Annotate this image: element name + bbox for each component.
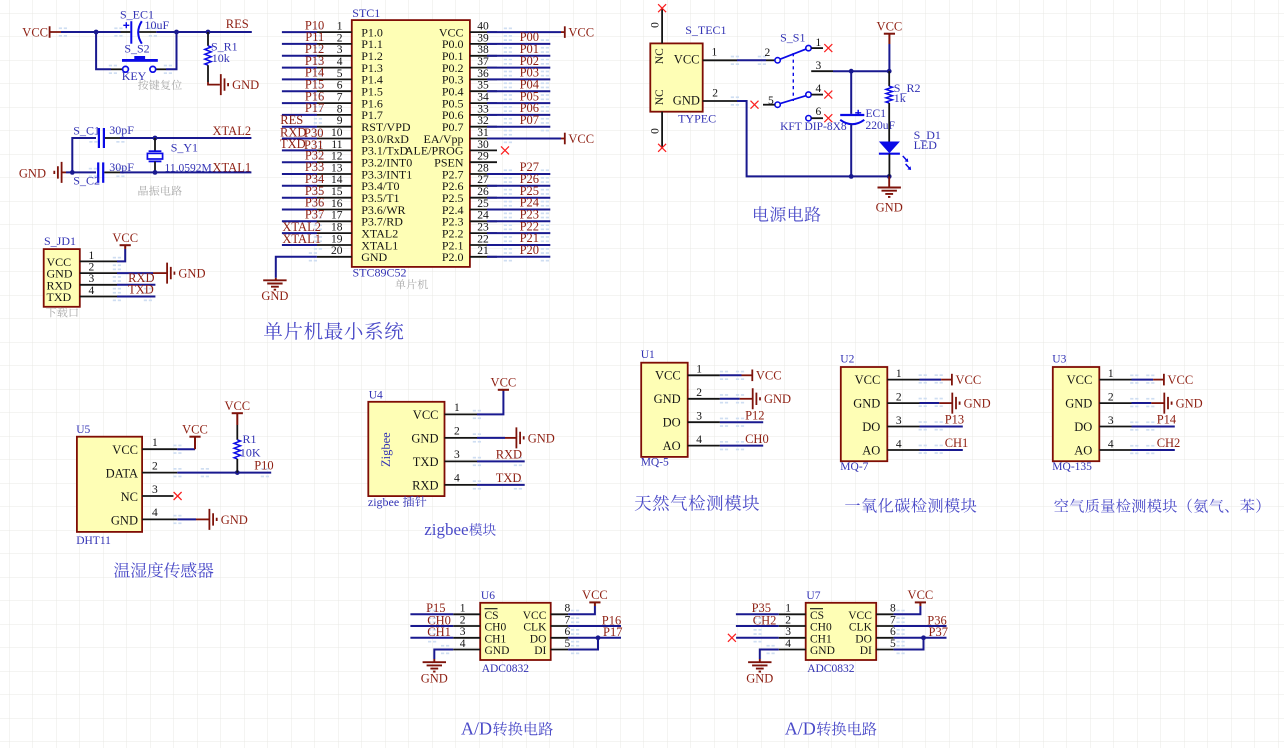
- svg-text:36: 36: [477, 68, 489, 80]
- svg-text:DI: DI: [534, 645, 546, 657]
- pin 3 U4: [445, 460, 478, 462]
- pin 1 S_JD1: [80, 260, 117, 262]
- caption 电源电路: [754, 206, 821, 222]
- wire P25 net: [487, 197, 550, 199]
- wire STC1 pin 8: [282, 114, 317, 116]
- ground GND (U4): [505, 437, 516, 439]
- wire STC1 pin 17: [282, 220, 317, 222]
- wire P27 net: [487, 173, 550, 175]
- svg-text:30: 30: [477, 139, 489, 151]
- svg-text:GND: GND: [361, 250, 387, 264]
- svg-text:2: 2: [152, 460, 158, 472]
- wire STC1 GND pin 20: [276, 257, 317, 278]
- svg-text:TXD: TXD: [280, 137, 306, 151]
- svg-text:8: 8: [337, 103, 343, 115]
- svg-text:TXD: TXD: [413, 455, 439, 469]
- svg-text:1: 1: [337, 21, 343, 33]
- svg-text:S_C2: S_C2: [73, 173, 100, 187]
- pin 3 U6: [453, 637, 480, 639]
- svg-text:GND: GND: [964, 397, 991, 411]
- wire STC1 pin 3: [282, 55, 317, 57]
- push button S_S2 KEY: [111, 68, 123, 70]
- svg-text:P37: P37: [929, 625, 948, 639]
- pin 7 STC1: [317, 102, 352, 104]
- node crystal top: [153, 136, 158, 141]
- wire U1 pin4 CH0: [720, 445, 763, 447]
- svg-text:17: 17: [331, 210, 343, 222]
- svg-text:GND: GND: [1176, 397, 1203, 411]
- ground GND (U6): [433, 659, 435, 662]
- pin 1 STC1: [317, 31, 352, 33]
- svg-text:13: 13: [331, 162, 343, 174]
- svg-text:DO: DO: [530, 633, 547, 645]
- ground GND (U7): [759, 659, 761, 662]
- pin 12 STC1: [317, 161, 352, 163]
- svg-text:GND: GND: [111, 513, 138, 527]
- pin 1 U6: [453, 613, 480, 615]
- svg-text:4: 4: [1108, 438, 1114, 450]
- svg-text:A/D: A/D: [785, 719, 816, 739]
- svg-text:2: 2: [337, 32, 343, 44]
- svg-text:25: 25: [477, 198, 489, 210]
- svg-text:3: 3: [696, 411, 702, 423]
- svg-text:27: 27: [477, 174, 489, 186]
- svg-text:20: 20: [331, 245, 343, 257]
- svg-text:CS: CS: [485, 610, 499, 622]
- power flag VCC (JD1): [124, 245, 126, 249]
- svg-text:zigbee: zigbee: [368, 495, 399, 509]
- crystal S_Y1 11.0592M: [154, 138, 156, 151]
- svg-text:9: 9: [337, 115, 343, 127]
- wire U6 pin5 to pin6: [568, 638, 598, 650]
- svg-text:CLK: CLK: [849, 622, 873, 634]
- wire XTAL2 net: [120, 137, 251, 139]
- svg-text:0: 0: [650, 22, 662, 28]
- svg-text:GND: GND: [232, 78, 259, 92]
- svg-text:VCC: VCC: [956, 373, 982, 387]
- svg-text:TXD: TXD: [128, 283, 154, 297]
- svg-text:DO: DO: [663, 416, 681, 430]
- svg-text:P2.0: P2.0: [442, 250, 464, 264]
- wire U5 pin1 to VCC: [177, 448, 195, 450]
- wire JD1 pin2 to GND: [117, 272, 153, 274]
- svg-text:P12: P12: [745, 408, 764, 422]
- svg-text:4: 4: [89, 285, 95, 297]
- wire U3 pin2 to GND: [1132, 402, 1152, 404]
- pin 13 STC1: [317, 173, 352, 175]
- wire STC1 pin 16: [282, 209, 317, 211]
- svg-text:Zigbee: Zigbee: [379, 432, 393, 467]
- svg-text:U2: U2: [840, 353, 854, 365]
- pin 4 U4: [445, 484, 478, 486]
- svg-text:26: 26: [477, 186, 489, 198]
- svg-text:6: 6: [337, 80, 343, 92]
- svg-text:CH0: CH0: [485, 622, 507, 634]
- svg-text:2: 2: [785, 614, 791, 626]
- svg-text:TXD: TXD: [47, 290, 72, 304]
- svg-text:CH2: CH2: [1157, 436, 1181, 450]
- ground GND (STC1): [275, 278, 277, 280]
- svg-text:0: 0: [650, 128, 662, 134]
- pin 4 S_JD1: [80, 296, 117, 298]
- pin 29 STC1: [470, 161, 497, 163]
- svg-text:VCC: VCC: [224, 399, 250, 413]
- pin S_S1-4 stub: [811, 94, 823, 96]
- svg-text:220uF: 220uF: [866, 120, 895, 132]
- resistor S_R1 10k: [207, 32, 209, 46]
- node DATA-R1: [235, 470, 240, 475]
- svg-text:DHT11: DHT11: [76, 535, 111, 547]
- svg-text:S_JD1: S_JD1: [44, 234, 76, 248]
- ground GND (JD1): [153, 272, 167, 274]
- wire TYPEC pin1 to switch: [737, 59, 766, 61]
- svg-text:GND: GND: [1065, 396, 1092, 410]
- wire S_EC1 to RES net: [156, 31, 252, 33]
- annotation 按键复位: [138, 80, 182, 90]
- wire U4 pin1 to VCC: [477, 391, 503, 414]
- svg-text:VCC: VCC: [22, 26, 48, 40]
- pin 6 STC1: [317, 90, 352, 92]
- wire U7 pin4 to GND: [760, 650, 779, 659]
- svg-text:VCC: VCC: [112, 443, 138, 457]
- svg-text:GND: GND: [853, 396, 880, 410]
- svg-text:4: 4: [696, 434, 702, 446]
- wire STC1 pin 14: [282, 185, 317, 187]
- svg-text:GND: GND: [221, 513, 248, 527]
- svg-text:2: 2: [696, 387, 702, 399]
- svg-text:VCC: VCC: [756, 369, 782, 383]
- svg-text:CH1: CH1: [945, 436, 969, 450]
- svg-text:4: 4: [785, 638, 791, 650]
- svg-text:31: 31: [477, 127, 489, 139]
- svg-text:VCC: VCC: [877, 20, 903, 34]
- svg-text:P13: P13: [945, 413, 964, 427]
- wire DATA P10 net: [177, 472, 271, 474]
- resistor S_R2 1k: [888, 71, 890, 86]
- svg-text:GND: GND: [673, 93, 700, 107]
- svg-text:3: 3: [1108, 415, 1114, 427]
- wire P04 net: [487, 90, 550, 92]
- svg-text:1: 1: [896, 368, 902, 380]
- wire U6 pin2 CH0: [410, 625, 453, 627]
- svg-text:RXD: RXD: [412, 479, 438, 493]
- pin 3 U5: [142, 495, 173, 497]
- svg-text:1: 1: [816, 37, 822, 49]
- pin 32 STC1: [470, 126, 497, 128]
- svg-text:3: 3: [785, 626, 791, 638]
- wire C1 left branch: [72, 138, 96, 172]
- wire U6 pin6 P17: [568, 637, 621, 639]
- pin 5 U7: [876, 649, 893, 651]
- pin 7 U7: [876, 625, 893, 627]
- svg-text:GND: GND: [810, 645, 835, 657]
- pin 3 STC1: [317, 55, 352, 57]
- pin 35 STC1: [470, 90, 497, 92]
- wire P05 net: [487, 102, 550, 104]
- svg-text:LED: LED: [914, 138, 938, 152]
- svg-text:STC89C52: STC89C52: [353, 266, 407, 280]
- svg-text:GND: GND: [746, 671, 773, 685]
- pin 21 STC1: [470, 256, 497, 258]
- annotation 单片机: [395, 279, 428, 289]
- svg-text:7: 7: [337, 92, 343, 104]
- wire STC1 pin 1: [282, 31, 317, 33]
- svg-text:2: 2: [896, 392, 902, 404]
- pin 2 STC1: [317, 43, 352, 45]
- pin 8 STC1: [317, 114, 352, 116]
- svg-text:VCC: VCC: [491, 376, 517, 390]
- svg-text:1: 1: [712, 47, 718, 59]
- svg-text:RES: RES: [226, 17, 249, 31]
- wire STC1 pin 10: [282, 138, 317, 140]
- svg-text:16: 16: [331, 198, 343, 210]
- svg-text:18: 18: [331, 222, 343, 234]
- pin 4 U5: [142, 518, 177, 520]
- svg-text:ADC0832: ADC0832: [482, 663, 530, 675]
- no-connect S_S1 pin1: [824, 44, 832, 52]
- svg-text:U6: U6: [481, 590, 495, 602]
- power flag VCC (U4): [502, 390, 504, 391]
- svg-text:10: 10: [331, 127, 343, 139]
- pin 34 STC1: [470, 102, 497, 104]
- capacitor S_EC1 10uF: [121, 31, 131, 33]
- svg-text:32: 32: [477, 115, 489, 127]
- wire U3 pin3 P14: [1132, 426, 1175, 428]
- pin 36 STC1: [470, 78, 497, 80]
- wire VCC to S_EC1: [61, 31, 121, 33]
- power flag VCC (pin31): [561, 138, 565, 140]
- capacitor S_C2 30pF: [97, 162, 99, 182]
- svg-text:1: 1: [152, 437, 158, 449]
- svg-text:EC1: EC1: [866, 108, 887, 120]
- svg-text:P10: P10: [254, 458, 273, 472]
- pin 1 U1: [688, 374, 720, 376]
- wire U7 pin8 to VCC: [894, 606, 921, 614]
- no-connect S_S1 pin5: [751, 101, 759, 109]
- wire STC1 pin31 to VCC: [487, 138, 561, 140]
- wire STC1 pin 11: [282, 149, 317, 151]
- svg-text:6: 6: [565, 626, 571, 638]
- pin 22 STC1: [470, 244, 497, 246]
- pin 2 U1: [688, 398, 720, 400]
- pin 40 STC1: [470, 31, 497, 33]
- svg-text:8: 8: [565, 603, 571, 615]
- svg-text:DO: DO: [855, 633, 872, 645]
- caption 单片机最小系统: [264, 322, 403, 340]
- svg-text:3: 3: [454, 449, 460, 461]
- svg-text:3: 3: [460, 626, 466, 638]
- node U6 DO-DI: [596, 635, 601, 640]
- svg-text:GND: GND: [764, 392, 791, 406]
- node U7 DO-DI: [921, 635, 926, 640]
- wire U3 pin4 CH2: [1132, 449, 1175, 451]
- no-connect U7 pin3: [728, 634, 736, 642]
- wire STC1 pin 15: [282, 197, 317, 199]
- svg-text:23: 23: [477, 222, 489, 234]
- svg-text:P20: P20: [520, 243, 539, 257]
- pin 39 STC1: [470, 43, 497, 45]
- svg-text:8: 8: [890, 603, 896, 615]
- svg-text:15: 15: [331, 186, 343, 198]
- svg-text:7: 7: [890, 614, 896, 626]
- pin 19 STC1: [317, 244, 352, 246]
- svg-text:12: 12: [331, 151, 343, 163]
- wire XTAL1 net: [120, 171, 251, 173]
- wire U6 pin3: [410, 637, 453, 639]
- ground GND (U2): [939, 402, 951, 404]
- svg-text:11: 11: [331, 139, 342, 151]
- svg-text:NC: NC: [121, 490, 138, 504]
- wire U7 pin1 P35: [736, 613, 779, 615]
- pin 14 STC1: [317, 185, 352, 187]
- svg-text:4: 4: [337, 56, 343, 68]
- node LED bottom: [887, 174, 892, 179]
- node EC1 bottom tap: [849, 174, 854, 179]
- svg-text:33: 33: [477, 103, 489, 115]
- svg-text:21: 21: [477, 245, 489, 257]
- svg-text:DO: DO: [1074, 420, 1092, 434]
- svg-text:P17: P17: [305, 101, 324, 115]
- svg-text:1: 1: [454, 402, 460, 414]
- svg-text:DO: DO: [862, 420, 880, 434]
- svg-text:7: 7: [565, 614, 571, 626]
- pin 16 STC1: [317, 209, 352, 211]
- wire STC1 pin 2: [282, 43, 317, 45]
- wire STC1 pin 13: [282, 173, 317, 175]
- svg-text:STC1: STC1: [352, 6, 380, 20]
- svg-text:19: 19: [331, 233, 343, 245]
- pin 20 STC1: [317, 256, 352, 258]
- svg-text:1: 1: [460, 603, 466, 615]
- wire U2 pin2 to GND: [920, 402, 940, 404]
- wire P23 net: [487, 220, 550, 222]
- node at resistor S_R1 top: [206, 30, 211, 35]
- caption 空气质量检测模块（氨气、苯）: [1054, 499, 1260, 513]
- wire STC1 pin 18: [282, 232, 317, 234]
- svg-text:A/D: A/D: [461, 719, 492, 739]
- wire STC1 pin 19: [282, 244, 317, 246]
- svg-text:4: 4: [816, 83, 822, 95]
- svg-text:38: 38: [477, 44, 489, 56]
- svg-text:GND: GND: [411, 432, 438, 446]
- svg-text:MQ-7: MQ-7: [840, 461, 868, 473]
- wire P26 net: [487, 185, 550, 187]
- pin 3 U7: [779, 637, 806, 639]
- svg-text:CH1: CH1: [485, 633, 507, 645]
- pin 2 U3: [1099, 402, 1131, 404]
- svg-text:5: 5: [565, 638, 571, 650]
- svg-text:U7: U7: [806, 590, 820, 602]
- pin 5 U6: [551, 649, 568, 651]
- svg-text:KFT DIP-8X8: KFT DIP-8X8: [780, 121, 847, 133]
- wire JD1 pin4 TXD: [117, 296, 155, 298]
- pin 27 STC1: [470, 185, 497, 187]
- pin 3 S_JD1: [80, 284, 117, 286]
- ground GND (reset): [208, 82, 220, 85]
- pin 9 STC1: [317, 126, 352, 128]
- svg-text:10uF: 10uF: [145, 18, 170, 32]
- wire U7 pin3 (nc): [736, 637, 779, 639]
- wire U2 pin1 to VCC: [920, 379, 942, 381]
- capacitor EC1 220uF: [850, 71, 852, 114]
- svg-text:4: 4: [454, 473, 460, 485]
- svg-text:GND: GND: [876, 200, 903, 214]
- svg-text:3: 3: [816, 60, 822, 72]
- svg-text:CH1: CH1: [810, 633, 832, 645]
- wire U1 pin2 to GND: [720, 398, 740, 400]
- ground GND (U3): [1151, 402, 1163, 404]
- wire P01 net: [487, 55, 550, 57]
- pin 25 STC1: [470, 209, 497, 211]
- capacitor S_C1 30pF: [98, 128, 100, 148]
- svg-text:VCC: VCC: [413, 408, 439, 422]
- wire STC1 pin 12: [282, 161, 317, 163]
- power flag VCC (U2): [941, 379, 952, 381]
- pin S_S1-6 stub: [811, 117, 823, 119]
- no-connect pin30: [501, 146, 509, 154]
- pin 24 STC1: [470, 220, 497, 222]
- wire U7 pin2 CH2: [736, 625, 779, 627]
- resistor R1 10K: [236, 425, 238, 440]
- pin 23 STC1: [470, 232, 497, 234]
- svg-text:1: 1: [1108, 368, 1114, 380]
- wire P21 net: [487, 244, 550, 246]
- wire gnd to C1/C2 junction: [66, 171, 96, 173]
- pin 4 STC1: [317, 67, 352, 69]
- wire switch branch left: [96, 32, 111, 69]
- no-connect TYPEC bottom: [658, 144, 666, 152]
- svg-text:5: 5: [890, 638, 896, 650]
- svg-text:RXD: RXD: [496, 447, 522, 461]
- power flag VCC (R1): [232, 412, 243, 414]
- svg-text:2: 2: [460, 614, 466, 626]
- svg-text:2: 2: [89, 262, 95, 274]
- pin 2 S_JD1: [80, 272, 117, 274]
- svg-text:VCC: VCC: [655, 369, 681, 383]
- power flag VCC (power circuit): [884, 33, 895, 35]
- pin 17 STC1: [317, 220, 352, 222]
- svg-text:6: 6: [890, 626, 896, 638]
- svg-text:AO: AO: [1074, 443, 1092, 457]
- svg-text:1: 1: [785, 603, 791, 615]
- power flag VCC (U3): [1153, 379, 1164, 381]
- svg-text:VCC: VCC: [855, 373, 881, 387]
- svg-text:29: 29: [477, 151, 489, 163]
- svg-text:GND: GND: [178, 267, 205, 281]
- pin 11 STC1: [317, 149, 352, 151]
- svg-text:U1: U1: [641, 349, 655, 361]
- ground GND (U1): [740, 398, 752, 400]
- svg-text:2: 2: [712, 87, 718, 99]
- svg-text:37: 37: [477, 56, 489, 68]
- svg-text:R1: R1: [243, 432, 257, 446]
- svg-text:DI: DI: [860, 645, 872, 657]
- wire P03 net: [487, 78, 550, 80]
- pin 3 U1: [688, 421, 720, 423]
- wire U1 pin3 P12: [720, 421, 763, 423]
- wire U3 pin1 to VCC: [1132, 379, 1154, 381]
- pin 3 U3: [1099, 426, 1131, 428]
- svg-text:VCC: VCC: [568, 26, 594, 40]
- wire U4 pin2 to GND: [477, 437, 505, 439]
- pin 28 STC1: [470, 173, 497, 175]
- svg-text:GND: GND: [654, 392, 681, 406]
- node crystal bottom: [153, 170, 158, 175]
- pin 15 STC1: [317, 197, 352, 199]
- caption 温湿度传感器: [114, 562, 213, 578]
- svg-text:2: 2: [1108, 392, 1114, 404]
- pin 8 U7: [876, 613, 893, 615]
